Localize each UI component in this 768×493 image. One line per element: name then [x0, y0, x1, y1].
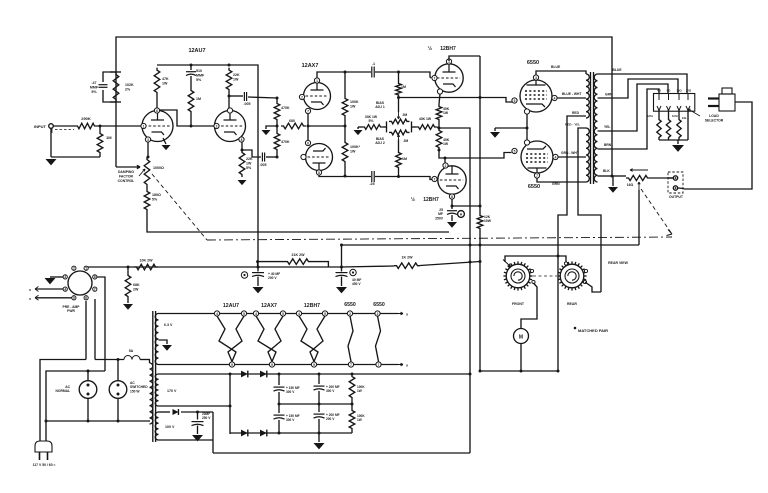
wire dashed damping diagonal [152, 174, 207, 240]
ground 6.3V CT [162, 345, 172, 351]
wire lower 6550 grid feed [438, 149, 512, 163]
capacitor 200MF 300V upper [314, 374, 340, 404]
wire pot to output jack [650, 177, 673, 179]
wire feedback top rail [116, 37, 612, 176]
svg-text:2: 2 [216, 124, 218, 128]
wire input ground return [51, 128, 100, 157]
wire cathode tail V2 [307, 114, 347, 140]
svg-text:NORMAL: NORMAL [56, 389, 70, 393]
label heater 12AU7 [223, 303, 239, 309]
svg-text:1W: 1W [233, 77, 239, 81]
svg-text:FACTOR: FACTOR [119, 174, 133, 178]
svg-text:100K: 100K [350, 100, 359, 104]
resistor 10K 2W [134, 259, 158, 270]
svg-text:1W: 1W [246, 161, 252, 165]
diode D2 [254, 371, 273, 378]
svg-text:5%: 5% [369, 119, 374, 123]
resistor 1M bias lower [396, 140, 407, 179]
label 12AX7 [302, 63, 319, 69]
wire rear pot top [558, 256, 568, 265]
transformer T2 secondary [594, 74, 597, 182]
svg-text:68K: 68K [133, 283, 140, 287]
svg-text:MMF: MMF [196, 73, 205, 77]
svg-text:3: 3 [535, 76, 537, 80]
transformer T2 core [591, 72, 594, 184]
capacitor 150MF 300V upper [274, 374, 300, 404]
svg-text:200 V: 200 V [268, 276, 277, 280]
label 12AU7 [188, 48, 205, 54]
svg-text:10K 2W: 10K 2W [140, 259, 154, 263]
svg-text:150 W: 150 W [130, 389, 140, 393]
potentiometer bias FRONT [503, 260, 533, 307]
svg-text:16Ω: 16Ω [676, 89, 682, 93]
svg-text:5: 5 [243, 312, 245, 316]
svg-text:12AX7: 12AX7 [302, 63, 319, 69]
capacitor .25 lower [369, 171, 431, 186]
svg-text:4: 4 [64, 287, 66, 291]
pin 3 V1A cathode [145, 137, 150, 142]
ground input [46, 159, 57, 165]
resistor 45K upper divider [436, 94, 450, 130]
resistor load 2 [666, 111, 678, 140]
svg-text:170 V: 170 V [167, 389, 177, 393]
tube V2B 12AX7 [306, 144, 333, 171]
svg-text:6550: 6550 [528, 184, 540, 190]
svg-text:9: 9 [271, 363, 273, 367]
wire front pot top [505, 255, 560, 263]
capacitor 25MF 250V cathode [435, 206, 457, 221]
wire socket pin8 down to AC [97, 277, 105, 371]
label heater 6550 b [373, 302, 385, 308]
svg-text:1W: 1W [357, 418, 362, 422]
wire plug to output [684, 102, 752, 189]
svg-text:4: 4 [298, 312, 300, 316]
pin 8 V2B plate [316, 170, 321, 175]
wire damping arm [116, 102, 140, 169]
svg-text:GRN: GRN [605, 93, 613, 97]
wire chassis dash-dot line [207, 237, 672, 240]
svg-text:PWR: PWR [67, 309, 75, 313]
svg-text:1W: 1W [357, 389, 362, 393]
svg-text:200 V: 200 V [326, 417, 335, 421]
wire 6.3V centre tap [159, 340, 168, 344]
pin 7 V3B grid [432, 176, 437, 181]
svg-text:2M: 2M [404, 139, 409, 143]
ground BLK tap [608, 176, 618, 193]
tube V2A 12AX7 [304, 83, 331, 110]
wire upper 6550 grid feed [397, 96, 512, 102]
wire V2A plate row [317, 71, 371, 79]
svg-text:A: A [460, 213, 463, 217]
wire filter mid bus [278, 403, 354, 406]
capacitor 20MF 250V bias [192, 412, 212, 434]
svg-text:7: 7 [378, 363, 380, 367]
svg-text:7: 7 [307, 109, 309, 113]
resistor 680 [281, 119, 306, 129]
wire 6550 cathode bus to ground [495, 114, 529, 140]
wire V4 screen BLUE-WHT [557, 92, 586, 98]
resistor 22K 1W 5% cathode V1B [239, 142, 253, 177]
label MATCHED PAIR [574, 327, 608, 333]
svg-text:12AU7: 12AU7 [223, 303, 239, 309]
svg-text:22K: 22K [233, 73, 240, 77]
svg-text:½: ½ [428, 45, 432, 52]
pin 3 V4 plate [533, 75, 538, 80]
wire 180ohm return [147, 212, 449, 232]
wire load tap 4 [687, 111, 689, 140]
wire V1A plate to V1B grid [160, 110, 214, 128]
diode D4 [254, 430, 273, 437]
wire heater 6550 1 [348, 316, 353, 362]
svg-text:6.3 V: 6.3 V [164, 323, 173, 327]
svg-text:12BH7: 12BH7 [440, 46, 456, 52]
wire socket pin6 down to AC [85, 301, 87, 360]
svg-text:5%: 5% [91, 90, 97, 94]
svg-text:3: 3 [147, 138, 149, 142]
svg-text:RED: RED [572, 111, 580, 115]
transformer T1 core [153, 311, 156, 442]
svg-text:100 V: 100 V [165, 425, 175, 429]
label BIAS ADJ 1 [375, 101, 385, 109]
svg-text:x: x [29, 288, 31, 292]
svg-text:1M: 1M [196, 97, 201, 101]
resistor 100K 1W bleeder lower [349, 404, 365, 433]
svg-text:1: 1 [316, 79, 318, 83]
capacitor .1 upper [372, 62, 431, 78]
svg-text:510: 510 [196, 69, 202, 73]
resistor 180ohm 5% [144, 187, 161, 212]
resistor 21K 2W bypass [256, 253, 328, 267]
svg-text:BLUE - WHT: BLUE - WHT [562, 92, 581, 96]
svg-text:7: 7 [434, 177, 436, 181]
svg-text:2W: 2W [133, 287, 139, 291]
ground bias [354, 127, 363, 135]
transformer T1 bias winding 100V [155, 412, 175, 440]
wire bias rail [340, 244, 639, 268]
label LOAD SELECTOR [688, 109, 724, 122]
pin 6 V1A plate [154, 108, 159, 113]
svg-text:450 V: 450 V [352, 282, 361, 286]
svg-text:32Ω: 32Ω [686, 89, 692, 93]
transformer T1 HV winding 170V [155, 374, 177, 406]
pin heater 3c [311, 362, 316, 367]
svg-text:MMF: MMF [90, 85, 99, 89]
svg-text:21K 2W: 21K 2W [292, 253, 306, 257]
svg-text:CONTROL: CONTROL [118, 179, 135, 183]
svg-text:2: 2 [349, 312, 351, 316]
tube V5 6550 lower [521, 141, 553, 173]
potentiometer 16ohm feedback [626, 169, 650, 245]
ground filter bottom [314, 433, 325, 449]
wire primary bottom [0, 0, 1, 1]
svg-text:.1: .1 [372, 62, 375, 66]
svg-text:3: 3 [64, 275, 66, 279]
svg-text:1W: 1W [443, 142, 449, 146]
pin 4 V4 screen [552, 95, 557, 100]
wire rear pot feed [585, 282, 601, 292]
label 6550 upper [527, 60, 539, 66]
svg-text:9: 9 [231, 363, 233, 367]
resistor 33K bias feed [362, 115, 383, 129]
wire heater rail top [159, 312, 409, 316]
pin ? V1B plate [227, 108, 232, 113]
ground V1B cathode [238, 180, 247, 185]
wire secondary BLK tap [598, 169, 627, 178]
pin ? V2B grid [301, 154, 306, 159]
wire bias winding return loop [213, 452, 470, 454]
potentiometer damping factor 1000 ohm [118, 157, 164, 187]
svg-text:290K: 290K [81, 116, 91, 121]
wire motor to bus [520, 344, 523, 373]
resistor 43K 1W [416, 117, 439, 129]
svg-text:SELECTOR: SELECTOR [705, 118, 724, 122]
svg-text:12BH7: 12BH7 [304, 303, 320, 309]
wire V1A cathode [147, 142, 150, 159]
svg-text:LOAD: LOAD [709, 114, 719, 118]
wire V3A plate to supply vertical [449, 56, 480, 61]
connector AC outlet normal [56, 370, 97, 422]
svg-text:7: 7 [94, 287, 96, 291]
wire HV bus [159, 373, 471, 376]
resistor 1M interstage [188, 88, 201, 126]
transformer T2 primary lower [586, 128, 589, 182]
resistor 100K 1W upper [342, 72, 359, 126]
svg-text:6: 6 [85, 296, 87, 300]
svg-text:5A: 5A [129, 349, 134, 353]
capacitor 40MF 450V filter [336, 267, 362, 286]
wire socket pin7 down to AC [94, 299, 96, 360]
diode D5 bias [159, 409, 214, 415]
potentiometer bias REAR [557, 261, 586, 306]
svg-text:300 V: 300 V [286, 390, 295, 394]
node A circle [458, 211, 465, 218]
connector pre-amp power socket [63, 266, 97, 313]
svg-text:6550: 6550 [527, 60, 539, 66]
tube V3A 12BH7 [435, 64, 463, 92]
pin 5 V5 grid [512, 148, 517, 153]
connector speaker plug [708, 88, 735, 111]
label heater 12AX7 [261, 303, 277, 309]
capacitor .005 upper coupling [229, 92, 277, 106]
wire dashed feedback diagonal [641, 189, 672, 236]
svg-text:2: 2 [377, 312, 379, 316]
pin ? V4 cathode [524, 109, 529, 114]
svg-text:117 V 50 / 60 ≈: 117 V 50 / 60 ≈ [33, 463, 56, 467]
svg-text:5%: 5% [152, 197, 158, 201]
svg-text:470K: 470K [281, 106, 290, 110]
resistor load 1 [647, 111, 661, 140]
svg-text:INPUT: INPUT [34, 124, 47, 129]
svg-text:1W: 1W [350, 149, 356, 153]
svg-text:.47: .47 [92, 81, 97, 85]
label 1/2 12BH7 lower [411, 196, 439, 203]
pin heater 2b [280, 311, 285, 316]
svg-text:8: 8 [94, 275, 96, 279]
potentiometer bias 2 2M [389, 130, 410, 143]
svg-text:43K 1W: 43K 1W [419, 117, 432, 121]
wire long vertical right B+ [439, 128, 472, 453]
svg-text:250V: 250V [435, 216, 444, 220]
transformer T1 primary [150, 360, 153, 425]
wire socket pin1 to rail [85, 266, 87, 269]
svg-text:REAR: REAR [567, 302, 577, 306]
diode D1 [236, 371, 248, 378]
pin heater 1c [229, 362, 234, 367]
pin 4 V5 screen [553, 154, 558, 159]
pin 2 V3B grid2 [443, 163, 448, 168]
svg-text:RED - YEL: RED - YEL [565, 123, 580, 127]
ground socket [45, 278, 56, 284]
tube V1A 12AU7 [142, 111, 173, 142]
wire RED-YEL tap [565, 123, 601, 293]
resistor 100K 1W lower [342, 126, 360, 175]
ground bias cap [192, 435, 203, 441]
svg-text:M: M [519, 335, 523, 341]
svg-text:GRN - WHT: GRN - WHT [561, 151, 579, 155]
svg-text:ADJ 1: ADJ 1 [375, 105, 385, 109]
svg-text:8: 8 [318, 171, 320, 175]
wire long vertical 12BH7 supply [479, 56, 482, 371]
label 6550 lower [528, 184, 540, 190]
pin 7 V3A grid [432, 75, 437, 80]
wire heater 6550 2 [376, 316, 381, 362]
resistor 68K 2W [125, 267, 140, 303]
ground 470K centre [262, 126, 278, 135]
pin ? V3A cathode [437, 89, 442, 94]
svg-text:6: 6 [156, 109, 158, 113]
wire B+ rail 12AU7 stage [157, 64, 258, 268]
wire AC neutral [46, 370, 105, 442]
svg-text:5: 5 [282, 312, 284, 316]
svg-text:2M: 2M [403, 113, 408, 117]
svg-text:300 V: 300 V [326, 389, 335, 393]
svg-text:DAMPING: DAMPING [118, 170, 134, 174]
svg-text:2%: 2% [125, 87, 131, 91]
pin 8 V3B cathode [449, 194, 454, 199]
wire secondary GRN tap [598, 79, 679, 98]
svg-text:BLUE: BLUE [612, 68, 622, 72]
resistor 290K [75, 116, 143, 129]
pin heater 3b [322, 311, 327, 316]
svg-text:½: ½ [411, 196, 415, 203]
svg-text:9: 9 [313, 363, 315, 367]
resistor 47K 1W plate load V1A [154, 68, 169, 108]
motor M [514, 329, 529, 344]
ground 68K [123, 304, 133, 310]
wire rectifier left leg [229, 374, 231, 434]
wire heater twisted pair 3 [299, 316, 325, 362]
wire heater rail bottom [159, 363, 409, 367]
pin heater 6550 1 top [347, 311, 352, 316]
svg-text:4: 4 [255, 312, 257, 316]
pin heater 6550 1 bot [348, 362, 353, 367]
wire socket to ground [50, 276, 63, 278]
wire V4 plate BLUE [536, 65, 586, 75]
wire V3B cathode node [451, 199, 481, 208]
wire AC hot [40, 360, 86, 442]
pin 2 V2A grid [299, 94, 304, 99]
svg-text:2: 2 [301, 95, 303, 99]
resistor 45K lower divider [436, 128, 450, 150]
pin heater 6550 2 bot [376, 362, 381, 367]
resistor 12K 10W dropper [477, 213, 492, 231]
ground 40MF 200V [253, 287, 264, 293]
svg-text:5: 5 [514, 99, 516, 103]
svg-text:8: 8 [241, 138, 243, 142]
svg-text:BLUE: BLUE [551, 65, 561, 69]
wire pots dashed link [530, 269, 587, 283]
svg-text:1W: 1W [443, 111, 449, 115]
ground 40MF 450V [336, 287, 347, 293]
wire rectifier bottom bus [230, 432, 352, 435]
svg-text:16Ω: 16Ω [627, 183, 634, 187]
wire heater twisted pair 1 [217, 316, 244, 362]
pin ? V5 cathode [524, 140, 529, 145]
wire V2B plate row [319, 175, 371, 178]
svg-text:5%: 5% [246, 166, 252, 170]
svg-text:6550: 6550 [344, 302, 356, 308]
svg-text:47K: 47K [162, 77, 169, 81]
pin heater 6550 2 top [375, 311, 380, 316]
svg-text:680: 680 [289, 119, 295, 123]
ground V3B cathode [447, 222, 457, 228]
svg-text:470K: 470K [281, 140, 290, 144]
svg-text:2: 2 [73, 267, 75, 271]
resistor 1M bias upper [396, 71, 406, 113]
svg-text:BLK: BLK [603, 169, 610, 173]
capacitor 40MF 200V filter [241, 267, 280, 286]
pin heater 3a [296, 311, 301, 316]
potentiometer bias 1 2M [389, 112, 410, 124]
pin heater 1b [241, 311, 246, 316]
wire V5 screen GRN-WHT [559, 151, 587, 157]
pin 2 V1B grid [214, 123, 219, 128]
pin 6 V2B cathode [305, 140, 310, 145]
svg-text:1/2A: 1/2A [647, 114, 653, 118]
resistor 1M input [97, 126, 112, 157]
svg-text:180Ω: 180Ω [152, 193, 161, 197]
svg-text:12AX7: 12AX7 [261, 303, 277, 309]
svg-text:10W: 10W [484, 219, 492, 223]
svg-text:FRONT: FRONT [512, 302, 525, 306]
resistor 100K 1W bleeder upper [349, 374, 365, 404]
wire secondary BRN tap [598, 89, 660, 149]
svg-text:1: 1 [143, 124, 145, 128]
label BIAS ADJ 2 [375, 137, 385, 145]
wire V5 plate GRN [537, 178, 586, 186]
svg-text:1M: 1M [106, 135, 112, 140]
resistor 470K lower [274, 126, 290, 159]
svg-text:102K: 102K [125, 83, 134, 87]
capacitor 200MF 200V lower [314, 404, 340, 433]
transformer T2 primary upper [586, 74, 589, 118]
wire socket feeds left [29, 287, 72, 302]
svg-text:REAR VIEW: REAR VIEW [608, 261, 629, 265]
pin 7 V2A cathode [305, 108, 310, 113]
svg-text:100K*: 100K* [350, 145, 361, 149]
svg-text:4: 4 [554, 96, 556, 100]
svg-text:1/2A: 1/2A [672, 114, 678, 118]
pin 7 V5 plate [534, 173, 539, 178]
svg-text:F.B.: F.B. [682, 116, 687, 120]
svg-text:4: 4 [216, 312, 218, 316]
svg-text:YEL: YEL [604, 125, 610, 129]
pin heater 2c [269, 362, 274, 367]
transformer T1 heater winding 6.3V [155, 314, 173, 365]
capacitor .47MMF feedback [90, 72, 116, 102]
capacitor .005 lower coupling [242, 150, 277, 167]
connector AC outlet switched [109, 358, 148, 421]
